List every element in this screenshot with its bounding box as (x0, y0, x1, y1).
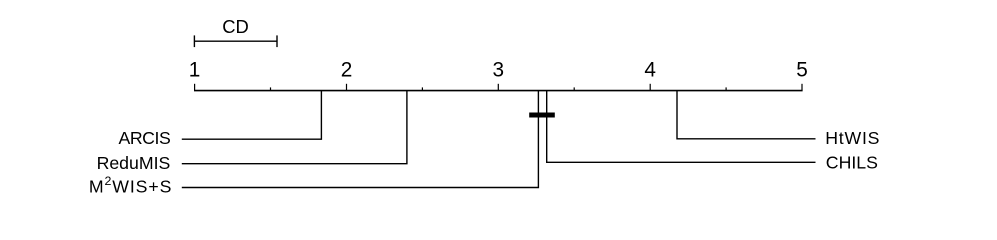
svg-text:4: 4 (644, 59, 656, 82)
wire M2WIS+S (182, 91, 539, 188)
svg-text:CD: CD (222, 16, 249, 37)
axis tick label 5 (796, 59, 808, 82)
svg-text:M2WIS+S: M2WIS+S (89, 174, 172, 196)
label ReduMIS (97, 153, 171, 173)
axis tick label 2 (341, 59, 353, 82)
label ARCIS (118, 128, 170, 148)
clique bar (M2WIS+S - CHILS) (529, 113, 555, 118)
label M2WIS+S (89, 174, 172, 196)
svg-text:3: 3 (493, 59, 505, 82)
axis tick label 3 (493, 59, 505, 82)
wire ARCIS (182, 91, 322, 140)
svg-text:CHILS: CHILS (826, 152, 878, 172)
wire ReduMIS (182, 91, 407, 164)
label CHILS (826, 152, 878, 172)
minor ticks (271, 87, 727, 90)
CD interval bracket (194, 35, 277, 47)
svg-text:ReduMIS: ReduMIS (97, 153, 171, 173)
axis tick label 4 (644, 59, 656, 82)
svg-text:5: 5 (796, 59, 808, 82)
svg-text:2: 2 (341, 59, 353, 82)
major ticks (195, 84, 802, 91)
axis line (194, 90, 803, 92)
svg-text:HtWIS: HtWIS (825, 128, 880, 148)
wire HtWIS (677, 91, 816, 139)
svg-text:ARCIS: ARCIS (118, 128, 170, 148)
wire CHILS (547, 91, 816, 163)
label HtWIS (825, 128, 880, 148)
axis tick label 1 (189, 59, 201, 82)
CD label (222, 16, 249, 37)
svg-text:1: 1 (189, 59, 201, 82)
